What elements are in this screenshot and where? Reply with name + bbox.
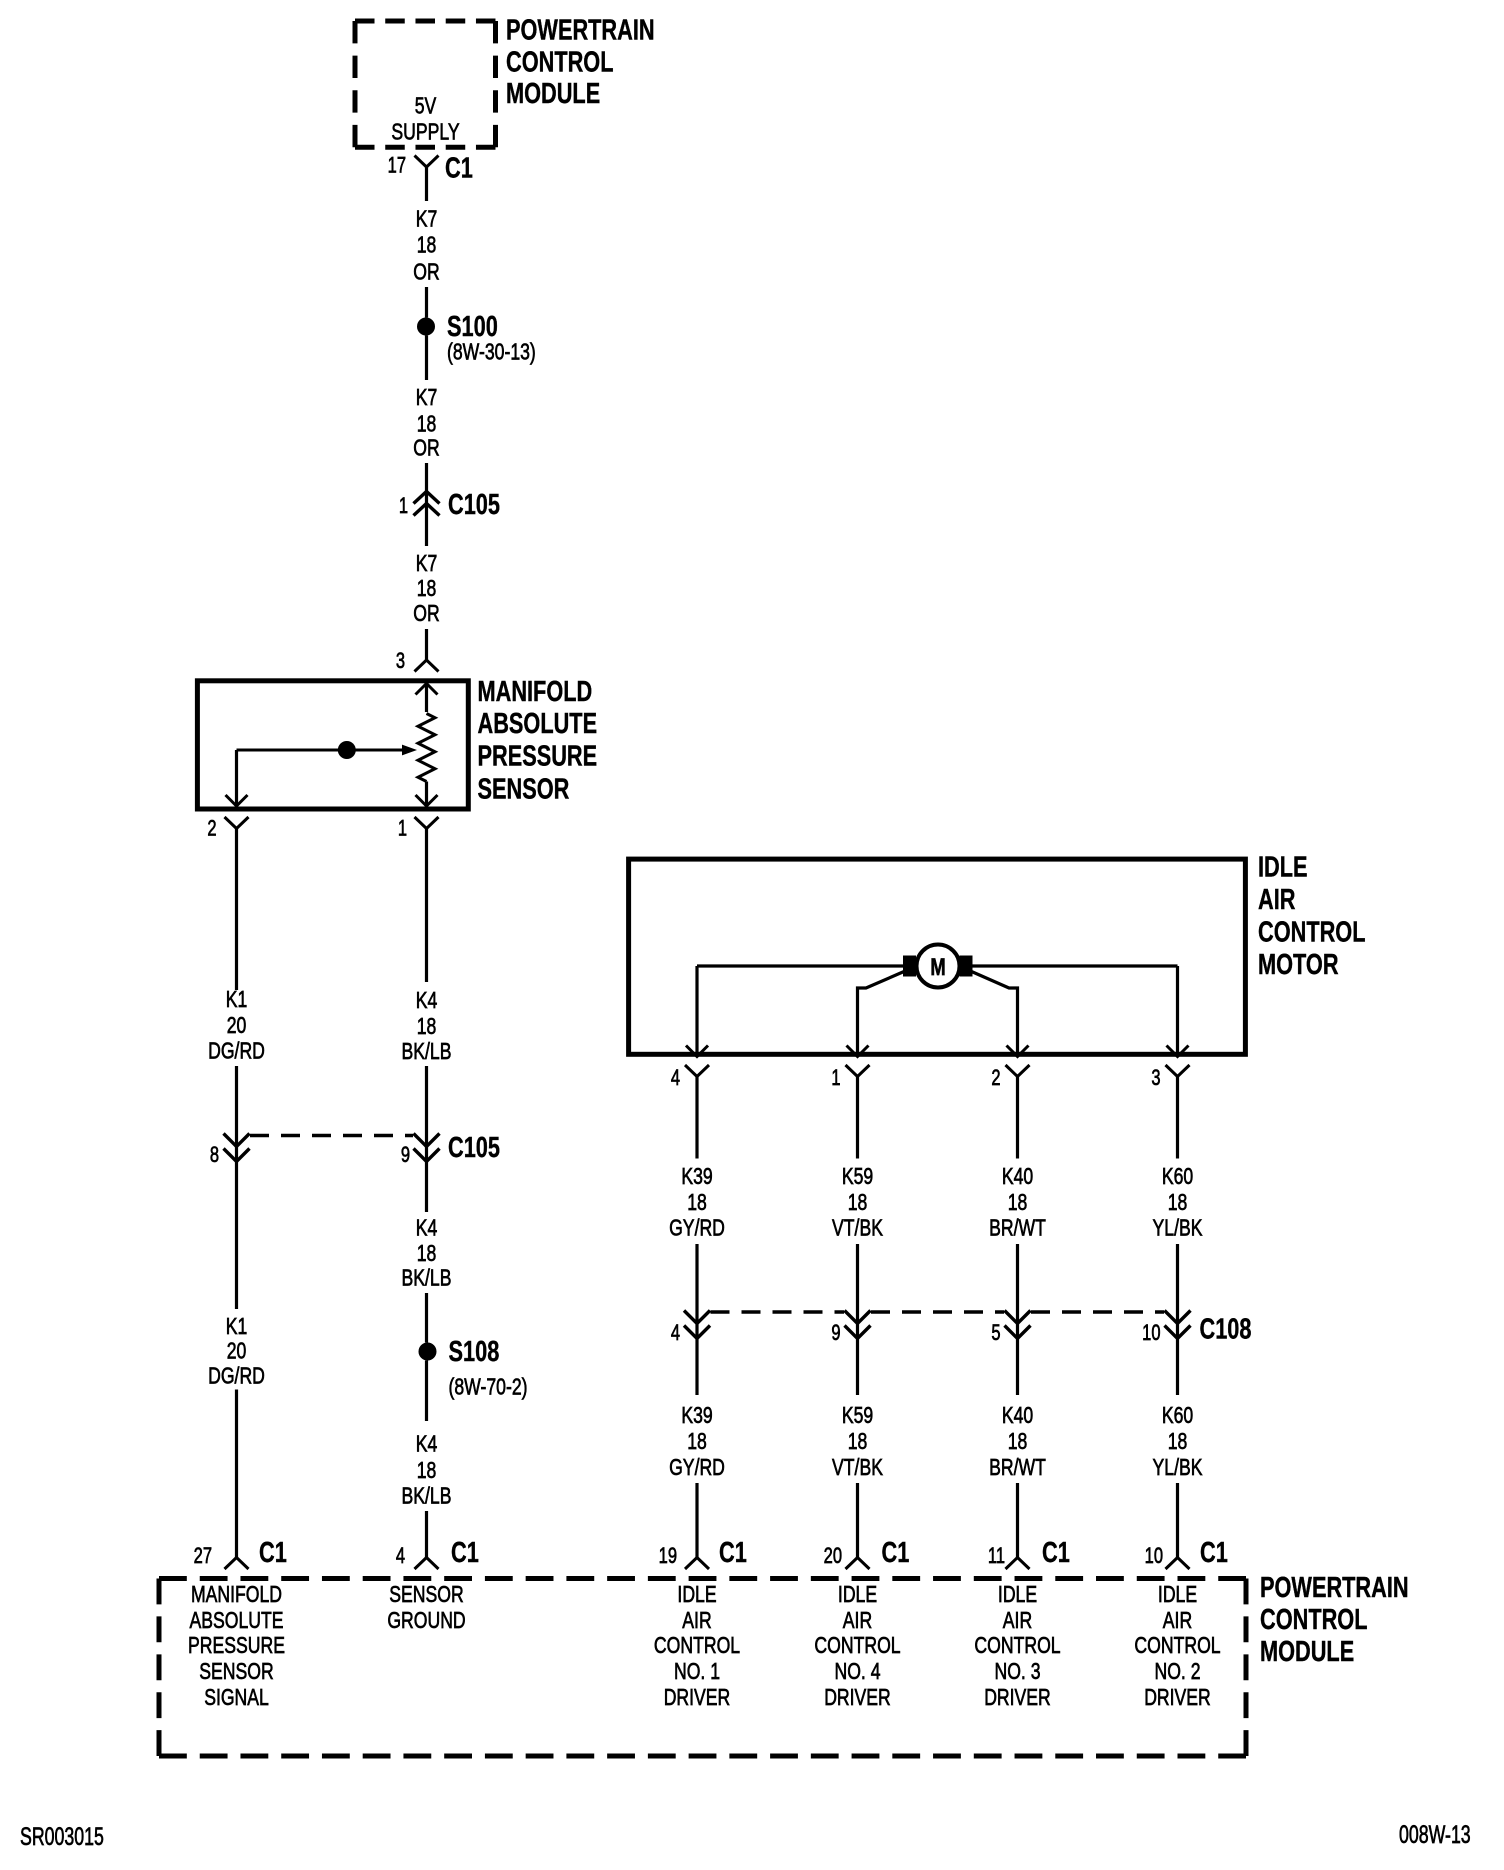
IAC motor pin 4 fork (685, 1065, 709, 1077)
svg-text:5V: 5V (415, 93, 437, 119)
svg-text:ABSOLUTE: ABSOLUTE (478, 708, 598, 740)
svg-text:VT/BK: VT/BK (832, 1455, 883, 1481)
svg-text:18: 18 (1168, 1429, 1188, 1455)
svg-text:18: 18 (1008, 1190, 1028, 1216)
node MAP sensor signal label (188, 1582, 285, 1711)
IAC motor pin 3 male pin (1167, 1046, 1189, 1057)
svg-text:C1: C1 (259, 1537, 287, 1569)
svg-text:SR003015: SR003015 (20, 1822, 104, 1851)
svg-text:C1: C1 (1042, 1537, 1070, 1569)
connector C108 pin 5 chevrons (1005, 1311, 1031, 1339)
dashed connector link C108 (871, 1310, 1004, 1313)
connector C105 pin 8 chevrons (224, 1134, 250, 1162)
PCM pin 11 fork (1006, 1558, 1030, 1570)
svg-text:K60: K60 (1162, 1164, 1193, 1190)
svg-text:CONTROL: CONTROL (814, 1633, 900, 1659)
svg-text:CONTROL: CONTROL (1134, 1633, 1220, 1659)
wire (1016, 1077, 1019, 1159)
motor brush terminal left (903, 956, 916, 977)
svg-text:K1: K1 (226, 1314, 248, 1340)
svg-text:SENSOR: SENSOR (389, 1582, 463, 1608)
PCM pin 19 fork (685, 1558, 709, 1570)
svg-text:DRIVER: DRIVER (1144, 1685, 1211, 1711)
connector C108 pin 4 chevrons (684, 1311, 710, 1339)
svg-text:MOTOR: MOTOR (1258, 949, 1339, 981)
svg-text:OR: OR (413, 259, 439, 285)
svg-text:YL/BK: YL/BK (1153, 1455, 1203, 1481)
wire (235, 750, 238, 806)
wire (235, 829, 238, 991)
wire (425, 829, 428, 983)
svg-text:K4: K4 (416, 988, 438, 1014)
wire (695, 1244, 698, 1395)
svg-text:CONTROL: CONTROL (654, 1633, 740, 1659)
svg-text:BK/LB: BK/LB (402, 1039, 452, 1065)
svg-text:K7: K7 (416, 385, 438, 411)
svg-text:17: 17 (388, 153, 406, 178)
svg-text:AIR: AIR (1163, 1608, 1192, 1634)
svg-text:MANIFOLD: MANIFOLD (478, 676, 593, 708)
wire (motor to pin 1) (858, 972, 905, 1055)
powertrain control module (bottom) dashed box (159, 1579, 1246, 1757)
wire (425, 1511, 428, 1558)
wire (pin 4 drop) (695, 966, 698, 1054)
idle air control motor box (629, 859, 1246, 1054)
svg-text:POWERTRAIN: POWERTRAIN (506, 15, 655, 47)
svg-text:IDLE: IDLE (998, 1582, 1037, 1608)
svg-text:4: 4 (396, 1544, 405, 1569)
PCM pin 4 fork (415, 1558, 439, 1570)
svg-text:NO. 4: NO. 4 (834, 1659, 880, 1685)
svg-text:2: 2 (207, 816, 216, 841)
svg-text:IDLE: IDLE (838, 1582, 877, 1608)
svg-text:K39: K39 (681, 1403, 712, 1429)
MAP sensor pin 2 male pin (226, 795, 248, 806)
svg-text:GROUND: GROUND (387, 1608, 465, 1634)
svg-text:18: 18 (417, 1014, 437, 1040)
connector C108 pin 10 chevrons (1165, 1311, 1191, 1339)
svg-text:AIR: AIR (1258, 884, 1295, 916)
MAP pin 2 fork (225, 817, 249, 829)
svg-text:YL/BK: YL/BK (1153, 1215, 1203, 1241)
wire (1016, 1483, 1019, 1558)
wire (695, 1077, 698, 1159)
svg-text:GY/RD: GY/RD (669, 1215, 725, 1241)
svg-text:K4: K4 (416, 1215, 438, 1241)
splice S100 (417, 318, 435, 336)
wire (425, 1293, 428, 1343)
node IAC no.1 driver label (654, 1582, 740, 1711)
svg-text:SENSOR: SENSOR (478, 773, 570, 805)
svg-text:NO. 1: NO. 1 (674, 1659, 720, 1685)
svg-text:9: 9 (401, 1143, 410, 1168)
svg-text:CONTROL: CONTROL (1260, 1604, 1367, 1636)
svg-text:CONTROL: CONTROL (506, 47, 613, 79)
manifold absolute pressure sensor box (197, 681, 468, 809)
MAP sensor pin 3 fork (415, 660, 439, 672)
connector C108 pin 9 chevrons (845, 1311, 871, 1339)
svg-text:K4: K4 (416, 1431, 438, 1457)
IAC motor pin 4 male pin (686, 1046, 708, 1057)
svg-text:PRESSURE: PRESSURE (478, 741, 598, 773)
svg-text:DG/RD: DG/RD (208, 1038, 265, 1064)
svg-text:MANIFOLD: MANIFOLD (191, 1582, 282, 1608)
wire (856, 1077, 859, 1159)
svg-text:18: 18 (848, 1190, 868, 1216)
svg-text:1: 1 (831, 1066, 840, 1091)
svg-text:OR: OR (413, 435, 439, 461)
splice S108 (419, 1343, 437, 1361)
IAC motor pin 3 fork (1166, 1065, 1190, 1077)
dashed connector link C108 (1031, 1310, 1164, 1313)
svg-text:2: 2 (991, 1066, 1000, 1091)
svg-text:BR/WT: BR/WT (989, 1215, 1046, 1241)
svg-text:K59: K59 (842, 1403, 873, 1429)
MAP sensor pin 1 male pin (416, 795, 438, 806)
svg-text:C105: C105 (448, 489, 500, 521)
svg-text:18: 18 (417, 232, 437, 258)
svg-text:SENSOR: SENSOR (199, 1659, 273, 1685)
node IAC no.4 driver label (814, 1582, 900, 1711)
svg-text:DRIVER: DRIVER (984, 1685, 1051, 1711)
svg-text:K7: K7 (416, 551, 438, 577)
svg-text:C108: C108 (1200, 1314, 1252, 1346)
svg-text:C105: C105 (448, 1132, 500, 1164)
svg-text:3: 3 (396, 649, 405, 674)
svg-text:18: 18 (417, 411, 437, 437)
wire (1176, 1244, 1179, 1395)
svg-text:GY/RD: GY/RD (669, 1455, 725, 1481)
PCM pin 27 fork (225, 1558, 249, 1570)
connector C1 pin 17 fork (415, 156, 439, 168)
resistor (MAP potentiometer element) (418, 714, 435, 782)
svg-text:C1: C1 (1200, 1537, 1228, 1569)
svg-text:AIR: AIR (843, 1608, 872, 1634)
svg-text:5: 5 (991, 1321, 1000, 1346)
svg-text:K7: K7 (416, 206, 438, 232)
IAC motor pin 1 fork (846, 1065, 870, 1077)
svg-text:IDLE: IDLE (677, 1582, 716, 1608)
svg-text:CONTROL: CONTROL (1258, 917, 1365, 949)
motor M circle (917, 945, 960, 988)
wire (425, 167, 428, 201)
svg-text:C1: C1 (882, 1537, 910, 1569)
wire (1176, 1077, 1179, 1159)
svg-text:BK/LB: BK/LB (402, 1483, 452, 1509)
wire (pin 3 drop) (1176, 966, 1179, 1054)
svg-text:SIGNAL: SIGNAL (204, 1685, 269, 1711)
svg-text:DG/RD: DG/RD (208, 1363, 265, 1389)
wire (425, 782, 428, 807)
wire (235, 1066, 238, 1309)
svg-text:20: 20 (227, 1338, 247, 1364)
svg-text:DRIVER: DRIVER (664, 1685, 731, 1711)
svg-text:18: 18 (1008, 1429, 1028, 1455)
wire (motor to pin 2) (972, 972, 1018, 1055)
svg-text:27: 27 (194, 1544, 212, 1569)
junction dot on wiper (338, 741, 356, 759)
svg-text:11: 11 (988, 1544, 1005, 1569)
wire (425, 287, 428, 318)
svg-text:18: 18 (417, 1241, 437, 1267)
svg-text:BR/WT: BR/WT (989, 1455, 1046, 1481)
connector C105 pin 1 chevrons (414, 492, 440, 516)
wire (425, 629, 428, 660)
svg-text:M: M (930, 952, 945, 980)
svg-text:DRIVER: DRIVER (824, 1685, 891, 1711)
svg-text:9: 9 (831, 1321, 840, 1346)
svg-text:AIR: AIR (1003, 1608, 1032, 1634)
wire (856, 1244, 859, 1395)
wire (856, 1483, 859, 1558)
svg-text:MODULE: MODULE (1260, 1636, 1354, 1668)
svg-text:BK/LB: BK/LB (402, 1265, 452, 1291)
svg-text:C1: C1 (445, 153, 473, 185)
svg-text:CONTROL: CONTROL (974, 1633, 1060, 1659)
svg-text:(8W-30-13): (8W-30-13) (447, 339, 536, 365)
svg-text:OR: OR (413, 601, 439, 627)
IAC motor pin 1 male pin (847, 1046, 869, 1057)
svg-text:K60: K60 (1162, 1403, 1193, 1429)
svg-text:1: 1 (399, 494, 408, 519)
dashed connector link C105 (250, 1134, 413, 1137)
svg-text:K59: K59 (842, 1164, 873, 1190)
svg-text:3: 3 (1151, 1066, 1160, 1091)
svg-text:10: 10 (1145, 1544, 1164, 1569)
svg-text:S100: S100 (447, 311, 498, 343)
dashed connector link C108 (711, 1310, 845, 1313)
motor brush terminal right (960, 956, 973, 977)
svg-text:NO. 3: NO. 3 (994, 1659, 1040, 1685)
svg-text:1: 1 (398, 816, 407, 841)
svg-text:MODULE: MODULE (506, 78, 600, 110)
wire (1016, 1244, 1019, 1395)
wire (425, 336, 428, 381)
svg-text:18: 18 (687, 1190, 707, 1216)
IAC motor pin 2 fork (1006, 1065, 1030, 1077)
svg-text:18: 18 (417, 1458, 437, 1484)
svg-text:4: 4 (671, 1066, 680, 1091)
connector C105 pin 9 chevrons (414, 1134, 440, 1162)
PCM pin 20 fork (846, 1558, 870, 1570)
wiper arrow (237, 745, 418, 756)
svg-text:IDLE: IDLE (1258, 852, 1308, 884)
svg-text:4: 4 (671, 1321, 680, 1346)
svg-text:AIR: AIR (682, 1608, 711, 1634)
svg-text:K1: K1 (226, 987, 248, 1013)
wire (425, 1361, 428, 1422)
wire (motor to pin 4) (697, 964, 904, 967)
svg-text:(8W-70-2): (8W-70-2) (449, 1374, 528, 1400)
svg-text:ABSOLUTE: ABSOLUTE (189, 1608, 283, 1634)
svg-text:008W-13: 008W-13 (1399, 1820, 1471, 1849)
wire (235, 1390, 238, 1558)
node IAC no.3 driver label (974, 1582, 1060, 1711)
svg-text:K40: K40 (1002, 1403, 1033, 1429)
powertrain control module (top) dashed box (355, 21, 496, 147)
wire (425, 1066, 428, 1212)
wire (425, 684, 428, 713)
MAP sensor pin 3 male pin (416, 684, 438, 695)
svg-text:18: 18 (687, 1429, 707, 1455)
wire (1176, 1483, 1179, 1558)
svg-text:VT/BK: VT/BK (832, 1215, 883, 1241)
wire (motor to pin 3) (972, 964, 1178, 967)
svg-text:10: 10 (1142, 1321, 1161, 1346)
svg-text:20: 20 (227, 1013, 247, 1039)
svg-text:PRESSURE: PRESSURE (188, 1633, 285, 1659)
svg-text:SUPPLY: SUPPLY (391, 119, 459, 145)
svg-text:20: 20 (824, 1544, 843, 1569)
svg-text:IDLE: IDLE (1158, 1582, 1197, 1608)
svg-text:C1: C1 (451, 1537, 479, 1569)
svg-text:K39: K39 (681, 1164, 712, 1190)
svg-text:C1: C1 (719, 1537, 747, 1569)
svg-text:K40: K40 (1002, 1164, 1033, 1190)
svg-text:NO. 2: NO. 2 (1154, 1659, 1200, 1685)
node IAC no.2 driver label (1134, 1582, 1220, 1711)
svg-text:18: 18 (417, 576, 437, 602)
wire (695, 1483, 698, 1558)
node sensor ground label (387, 1582, 465, 1634)
svg-text:S108: S108 (449, 1336, 500, 1368)
svg-text:19: 19 (659, 1544, 677, 1569)
IAC motor pin 2 male pin (1007, 1046, 1029, 1057)
svg-text:POWERTRAIN: POWERTRAIN (1260, 1572, 1409, 1604)
wire (425, 463, 428, 546)
svg-text:8: 8 (210, 1143, 219, 1168)
PCM pin 10 fork (1166, 1558, 1190, 1570)
MAP pin 1 fork (415, 817, 439, 829)
svg-text:18: 18 (1168, 1190, 1188, 1216)
svg-text:18: 18 (848, 1429, 868, 1455)
